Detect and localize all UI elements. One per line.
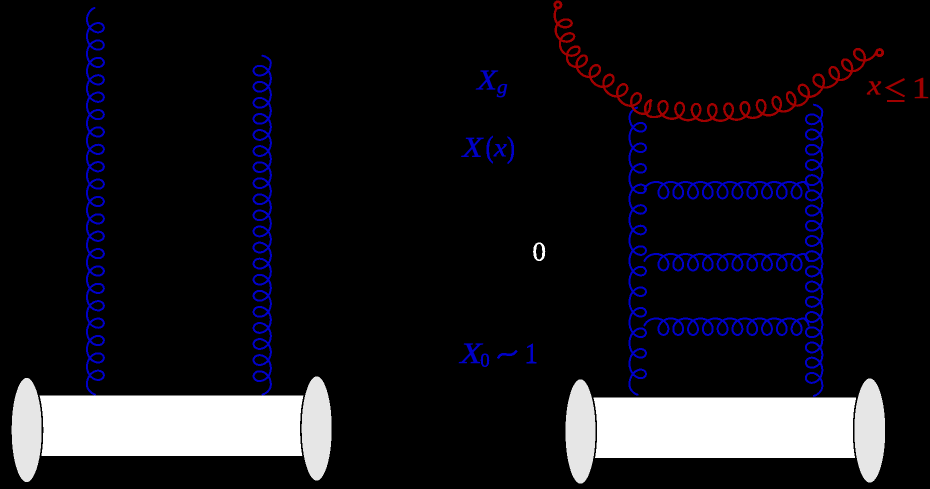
gluon G1 (left diagram, left gluon) [87, 8, 104, 395]
left cylinder body [26, 395, 317, 458]
red gluon start blob [555, 2, 561, 8]
emitted gluon (red arc) [555, 8, 877, 121]
right cylinder left cap [565, 379, 597, 485]
label X_g [476, 71, 507, 98]
gluon ladder rung 1 [645, 182, 809, 198]
red gluon end blob [877, 50, 883, 56]
right cylinder right cap [854, 378, 886, 484]
gluon ladder right vertical G4 [806, 105, 822, 396]
label X(x) [461, 136, 514, 164]
label X_0 ~ 1 [459, 344, 536, 367]
gluon ladder left vertical G3 [629, 108, 645, 395]
left cylinder right cap [301, 376, 333, 482]
gluon G2 (left diagram, right gluon) [254, 56, 271, 395]
right cylinder body [580, 397, 870, 460]
left cylinder left cap [11, 377, 43, 483]
label x <= 1 [867, 78, 928, 101]
gluon ladder rung 2 [645, 254, 809, 270]
gluon ladder rung 3 [645, 319, 809, 335]
label 0 (white) [534, 243, 546, 261]
